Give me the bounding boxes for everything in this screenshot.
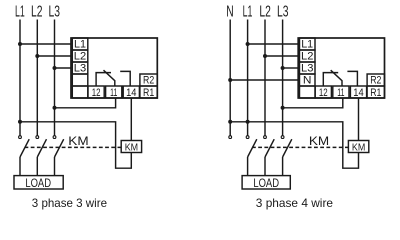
svg-text:R1: R1 [143,87,154,99]
relay U2 terminal cell L2 [300,50,316,62]
label terminal 12 [92,87,101,99]
label terminal R2 right [370,74,381,86]
svg-text:L3: L3 [49,4,61,21]
svg-text:L2: L2 [301,50,313,62]
wire: N to relay input [230,79,298,81]
contactor pole 2: blade [37,139,46,157]
relay U1 terminal cell 11 [106,86,122,98]
label L3 cell [74,62,86,74]
svg-text:11: 11 [110,87,117,99]
node: L3 tap to relay [53,66,57,70]
relay U2 terminal cell 11 [333,86,349,98]
KM coil box [121,141,141,153]
label terminal 14 [126,87,136,99]
relay U2 terminal cell N [300,74,316,86]
contactor pole 3 right: lower wire [282,157,284,176]
node: L1 tap to relay right [246,42,250,46]
relay contact: fixed contact 12 right [323,73,338,86]
relay U1 spare cell [72,74,88,86]
svg-text:N: N [226,4,233,21]
phase label L3 right [277,4,289,21]
node: L2 tap to relay [35,54,39,58]
wire: phase line L2 vertical [36,20,38,136]
svg-text:KM: KM [352,143,365,154]
contactor pole 1 right: fixed terminal circle [246,136,249,139]
label N cell [303,74,312,86]
relay U2 terminal cell L3 [300,62,316,74]
relay U2 terminal cell 14 [350,86,366,98]
wire: relay terminal 14 to KM coil [130,98,132,141]
svg-text:L2: L2 [74,50,86,62]
node: L1 junction on coil return [246,120,250,124]
phase label L2 [31,4,43,21]
wire: phase line L2 vertical right [264,20,266,136]
label KM coil [125,143,138,154]
relay contact: fixed contact 12 [96,73,111,86]
svg-text:KM: KM [68,134,88,148]
relay U1 bottom-left cell [72,86,88,98]
wire: neutral line N vertical [229,20,231,136]
node: L1 tap to coil return [18,120,22,124]
contactor KM mechanical link right (dashed) [252,146,348,148]
svg-text:L1: L1 [74,38,86,50]
wire: phase line L1 vertical [19,20,21,136]
wire: L3 to relay terminal 11 right [283,98,343,108]
relay U2 terminal cell R2 [367,74,384,86]
relay contact: fixed contact 14 [120,71,130,86]
relay U1 terminal cell 12 [88,86,104,98]
label terminal R2 [143,74,154,86]
phase label L1 [15,4,25,21]
svg-text:L1: L1 [15,4,25,21]
label terminal 12 right [319,87,328,99]
svg-text:L1: L1 [243,4,253,21]
node: L3 tap to terminal 11 right [281,106,285,110]
contactor KM mechanical link (dashed) [25,146,122,148]
label KM contactor right [309,134,329,148]
svg-text:KM: KM [125,143,138,154]
wire: phase line L1 vertical right [247,20,249,136]
contactor pole 2 right: lower wire [264,157,266,176]
wire: phase line L3 vertical [54,20,56,136]
relay U1 terminal cell R2 [140,74,157,86]
label L1 cell right [301,38,313,50]
phase label N [226,4,233,21]
node: L1 tap to relay [18,42,22,46]
wire: L3 to relay input [55,67,72,69]
contactor pole 1 right: lower wire [247,157,249,176]
relay contact: fixed contact 14 right [347,71,357,86]
wire: coil return to N [230,122,358,168]
caption: 3 phase 4 wire [256,196,334,210]
contactor pole 1: blade [20,139,29,157]
label L2 cell right [301,50,313,62]
relay U2 outer box [298,38,384,98]
label L1 cell [74,38,86,50]
relay U1 outer box [71,38,157,98]
wire: L3 to relay terminal 11 [55,98,116,108]
contactor pole 2: fixed terminal circle [36,136,39,139]
label KM contactor [68,134,88,148]
wire: L2 to relay input [37,55,71,57]
label KM coil right [352,143,365,154]
phase label L2 right [259,4,271,21]
label LOAD [25,176,51,190]
svg-text:14: 14 [353,87,363,99]
svg-text:12: 12 [319,87,328,99]
contactor pole 3 right: fixed terminal circle [281,136,284,139]
relay U2 bottom-left cell [300,86,316,98]
caption: 3 phase 3 wire [32,196,108,210]
node: N tap to coil return [228,120,232,124]
svg-text:L2: L2 [259,4,271,21]
svg-text:11: 11 [337,87,344,99]
wire: L2 to relay input right [265,55,298,57]
label L3 cell right [301,62,313,74]
label terminal R1 right [370,87,381,99]
relay contact: blade 11 right [331,70,342,86]
relay U1 terminal cell 14 [123,86,139,98]
relay contact: blade 11 [104,70,115,86]
svg-text:LOAD: LOAD [253,176,279,190]
relay U1 terminal cell L3 [72,62,88,74]
relay U2 terminal cell L1 [300,38,316,50]
svg-text:12: 12 [92,87,101,99]
relay U2 terminal cell R1 [367,86,384,98]
label terminal R1 [143,87,154,99]
phase label L1 right [243,4,253,21]
svg-text:L3: L3 [74,62,86,74]
LOAD box [14,176,63,189]
KM coil box right [348,141,368,153]
LOAD box right [242,176,290,189]
svg-text:LOAD: LOAD [25,176,51,190]
svg-text:L3: L3 [277,4,289,21]
svg-text:L3: L3 [301,62,313,74]
svg-text:L1: L1 [301,38,313,50]
svg-text:14: 14 [126,87,136,99]
relay U1 terminal cell L2 [72,50,88,62]
svg-text:R2: R2 [370,74,381,86]
svg-text:3 phase 4 wire: 3 phase 4 wire [256,196,334,210]
contactor pole 2 right: blade [265,139,274,157]
label terminal 14 right [353,87,363,99]
wire: L3 to relay input right [283,67,299,69]
contactor pole 2: lower wire [36,157,38,176]
wire: coil return to L1 [20,122,131,168]
contactor pole 1 right: blade [248,139,257,157]
wire: L1 to relay input right [248,43,299,45]
contactor pole 3: lower wire [54,157,56,176]
phase label L3 [49,4,61,21]
svg-text:L2: L2 [31,4,43,21]
relay U1 terminal cell L1 [72,38,88,50]
relay U1 terminal cell R1 [140,86,157,98]
svg-text:3 phase 3 wire: 3 phase 3 wire [32,196,108,210]
wire: phase line L3 vertical right [282,20,284,136]
node: N tap to relay [228,78,232,82]
label L2 cell [74,50,86,62]
svg-text:N: N [303,74,312,86]
svg-text:KM: KM [309,134,329,148]
wire: relay terminal 14 to KM coil right [358,98,360,141]
node: L2 tap to relay right [263,54,267,58]
label terminal 11 [110,87,117,99]
contactor pole 2 right: fixed terminal circle [264,136,267,139]
contactor pole 3 right: blade [283,139,292,157]
neutral line end terminal circle [229,136,232,139]
svg-text:R2: R2 [143,74,154,86]
label terminal 11 right [337,87,344,99]
contactor pole 3: fixed terminal circle [53,136,56,139]
node: L3 tap to terminal 11 [53,106,57,110]
relay U2 terminal cell 12 [315,86,331,98]
contactor pole 3: blade [55,139,64,157]
contactor pole 1: lower wire [19,157,21,176]
contactor pole 1: fixed terminal circle [19,136,22,139]
wire: L1 to relay input [20,43,71,45]
label LOAD right [253,176,279,190]
node: L3 tap to relay right [281,66,285,70]
svg-text:R1: R1 [370,87,381,99]
